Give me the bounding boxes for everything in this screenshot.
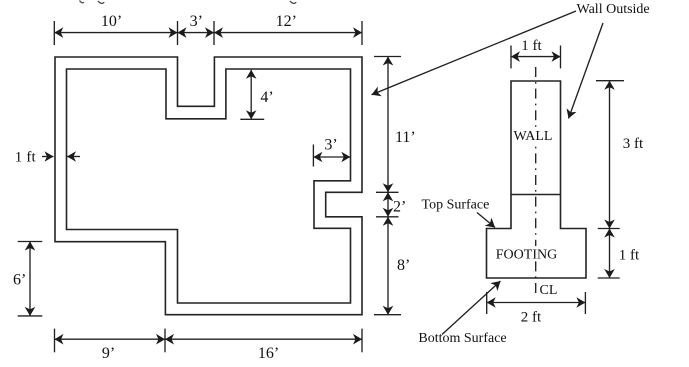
dim 9' line (55, 338, 166, 340)
svg-text:1 ft: 1 ft (15, 150, 37, 166)
svg-text:1 ft: 1 ft (619, 248, 640, 264)
dim 12' line (214, 32, 362, 34)
dim 4' line (250, 70, 252, 120)
svg-text:3’: 3’ (190, 13, 203, 30)
dim 3' line (top) (178, 32, 215, 34)
svg-text:3 ft: 3 ft (623, 136, 644, 152)
svg-text:10’: 10’ (101, 13, 122, 30)
Wall Outside arrow to wall section (569, 23, 604, 119)
svg-text:8’: 8’ (397, 257, 410, 274)
dim 3 ft ticks (596, 81, 624, 278)
dim 10' line (54, 32, 177, 34)
svg-text:6’: 6’ (13, 272, 26, 289)
plan inner wall outline (67, 69, 351, 303)
top dimension ticks (54, 21, 362, 45)
dim 6' line (29, 242, 31, 316)
dim 8' line (387, 217, 389, 315)
Wall Outside arrow to plan (372, 11, 577, 95)
dim 2 ft ticks (487, 292, 586, 314)
dim 1 ft (wall width) line (511, 56, 561, 58)
Bottom Surface arrow (442, 281, 501, 335)
bottom dimension ticks (55, 329, 363, 353)
dim 6' ticks (18, 242, 43, 316)
label CL (538, 284, 556, 297)
svg-text:2’: 2’ (393, 199, 406, 216)
right dimension ticks (374, 57, 401, 315)
svg-text:Bottom Surface: Bottom Surface (418, 331, 506, 346)
svg-text:3’: 3’ (324, 137, 337, 154)
dim 3' (right notch) line (313, 156, 350, 158)
wall/footing joint line (511, 194, 561, 196)
svg-text:Wall Outside: Wall Outside (577, 2, 650, 17)
svg-text:Top Surface: Top Surface (422, 198, 490, 213)
svg-text:FOOTING: FOOTING (496, 248, 557, 263)
svg-text:11’: 11’ (395, 129, 416, 146)
svg-text:WALL: WALL (514, 129, 553, 144)
dim 3 ft line (609, 81, 611, 229)
dim 3' (right notch) tick (312, 145, 314, 167)
svg-text:CL: CL (540, 283, 558, 298)
svg-text:12’: 12’ (276, 13, 297, 30)
label FOOTING (496, 246, 557, 260)
svg-text:9’: 9’ (102, 345, 115, 362)
svg-text:2 ft: 2 ft (521, 310, 542, 326)
dim 2' line (387, 192, 389, 217)
plan outer wall outline (55, 57, 362, 315)
dim 11' line (387, 57, 389, 193)
svg-text:4’: 4’ (260, 89, 273, 106)
clipped title descender marks (80, 1, 297, 4)
1 ft left pointer right (42, 156, 54, 158)
1 ft left pointer left (67, 156, 80, 158)
svg-text:16’: 16’ (258, 345, 279, 362)
dim 2 ft line (487, 302, 586, 304)
dim 16' line (165, 338, 362, 340)
Top Surface arrow (477, 213, 495, 228)
dim 1 ft (wall width) ticks (511, 46, 561, 69)
svg-text:1 ft: 1 ft (521, 38, 542, 54)
dim 4' bottom tick (240, 118, 264, 120)
dim 1 ft (footing depth) line (609, 229, 611, 279)
label WALL (513, 128, 555, 143)
centerline CL (dash-dot) (535, 67, 537, 293)
wall and footing profile (487, 81, 587, 278)
